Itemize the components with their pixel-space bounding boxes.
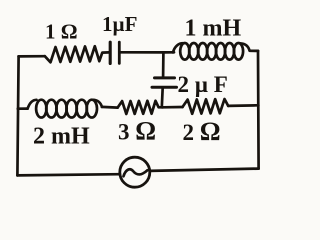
wire middle-left stub [18, 107, 28, 110]
wire R3 to right vertical [228, 104, 258, 107]
svg-text:1 mH: 1 mH [185, 16, 242, 42]
capacitor C2 2uF bottom plate [152, 86, 177, 89]
wire node A to L1 [164, 51, 175, 54]
inductor L2 2 mH entry [28, 100, 37, 109]
wire bottom-right [150, 169, 259, 171]
wire bottom-left [17, 174, 120, 175]
wire C1 to node A [121, 51, 164, 54]
svg-text:2 µ F: 2 µ F [178, 72, 228, 97]
svg-text:1 Ω: 1 Ω [45, 20, 78, 44]
inductor L1 1 mH entry [173, 43, 183, 52]
svg-text:2 mH: 2 mH [33, 124, 90, 150]
AC source V1 circle [120, 157, 150, 187]
capacitor C1 1uF left plate [109, 42, 112, 63]
resistor R3 2 ohm [183, 99, 229, 114]
inductor L1 1 mH loops [180, 43, 189, 60]
wire top-left stub [19, 55, 45, 58]
capacitor C1 1uF right plate [118, 42, 121, 63]
svg-text:1µF: 1µF [102, 12, 137, 36]
wire left vertical [17, 56, 18, 175]
inductor L2 2 mH loops [36, 100, 46, 118]
svg-text:2 Ω: 2 Ω [183, 117, 221, 146]
AC source V1 sine [124, 169, 148, 176]
wire node A to C2 [162, 53, 165, 78]
capacitor C2 2uF top plate [155, 76, 175, 79]
inductor L2 2 mH exit [93, 100, 102, 107]
wire C2 to node B [160, 87, 164, 107]
resistor R1 1 ohm [45, 46, 109, 62]
wire L2 to R2 [102, 106, 118, 109]
resistor R2 3 ohm [118, 101, 163, 114]
inductor L1 1 mH exit [240, 43, 258, 51]
wire right vertical [257, 51, 260, 169]
svg-text:3 Ω: 3 Ω [118, 117, 156, 146]
wire node B to R3 [163, 106, 183, 109]
